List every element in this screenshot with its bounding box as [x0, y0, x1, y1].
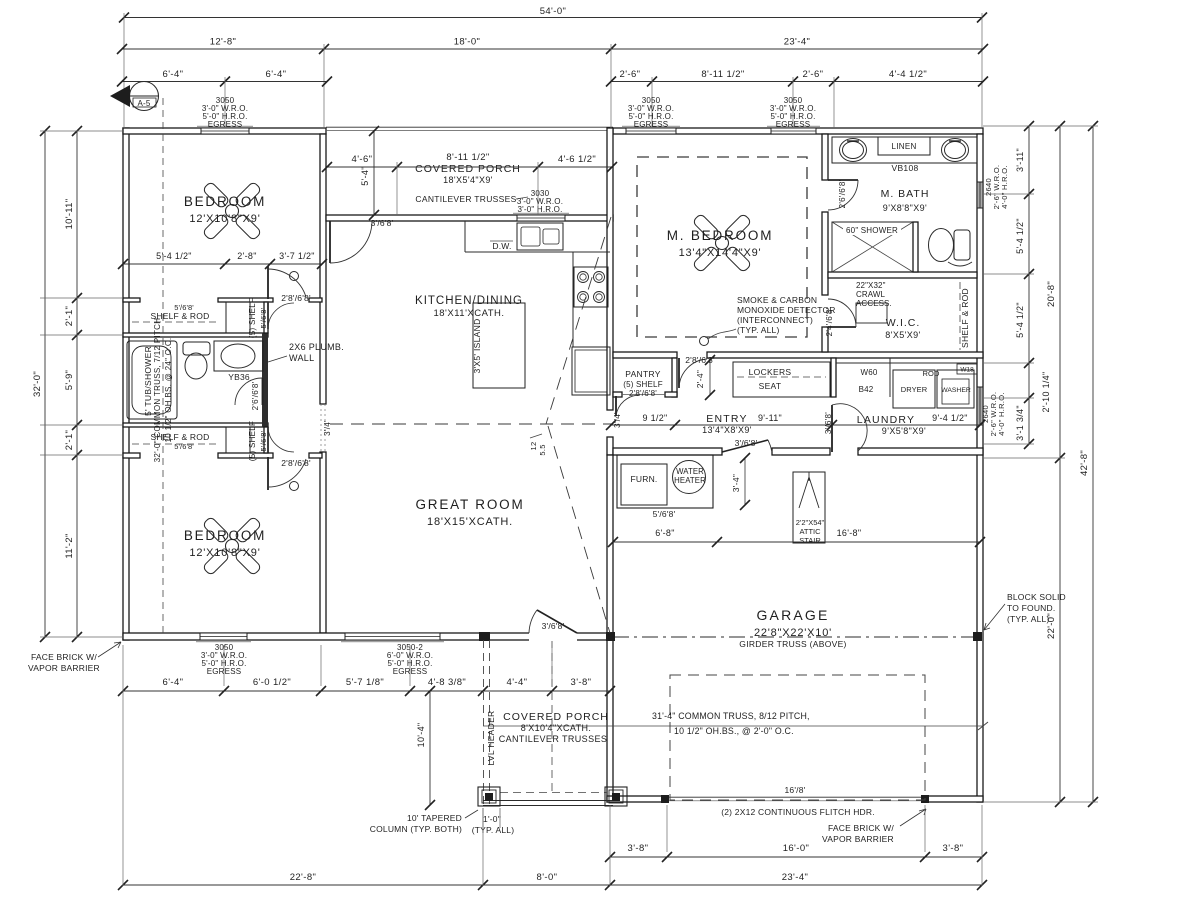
svg-text:16'-0": 16'-0"	[783, 843, 810, 854]
svg-text:CANTILEVER TRUSSES: CANTILEVER TRUSSES	[415, 194, 516, 204]
svg-text:9'-4 1/2": 9'-4 1/2"	[932, 413, 968, 423]
ceiling fan bedroom1	[234, 213, 262, 241]
svg-text:4'-0" H.R.O.: 4'-0" H.R.O.	[997, 392, 1006, 436]
porch LVL header dashed lines	[483, 640, 485, 806]
svg-text:12'X10'8"X9': 12'X10'8"X9'	[189, 547, 260, 559]
dim row3 right 2-6 8-11half 2-6 4-4half	[611, 81, 983, 83]
pantry bottom wall	[613, 392, 622, 397]
svg-text:5'/6'8': 5'/6'8'	[653, 509, 676, 519]
wall lockers/laundry	[831, 358, 836, 397]
hall-bath top wall	[123, 333, 268, 337]
smoke detector bedroom1	[290, 272, 299, 281]
svg-text:HEATER: HEATER	[674, 476, 706, 485]
dim right overall 42-8	[1092, 126, 1094, 802]
svg-text:5'-4 1/2": 5'-4 1/2"	[156, 251, 192, 261]
dim garage bottom 3-8 16-0 3-8	[610, 856, 982, 858]
svg-text:16'/8': 16'/8'	[785, 785, 806, 795]
svg-text:COLUMN (TYP. BOTH): COLUMN (TYP. BOTH)	[370, 824, 462, 834]
svg-text:9'X5'8"X9': 9'X5'8"X9'	[882, 426, 926, 436]
dim right chain1	[1028, 126, 1030, 444]
svg-text:3'-11": 3'-11"	[1015, 148, 1025, 172]
island	[473, 303, 525, 388]
svg-text:VB108: VB108	[891, 163, 918, 173]
svg-text:32'-0" COMMON TRUSS, 7/12 PITC: 32'-0" COMMON TRUSS, 7/12 PITCH	[153, 318, 162, 463]
svg-text:3'-8": 3'-8"	[628, 843, 649, 854]
svg-text:ROD: ROD	[923, 369, 940, 378]
svg-text:4'-4": 4'-4"	[507, 677, 528, 688]
master bath / WIC divider wall	[828, 272, 977, 278]
svg-text:LAUNDRY: LAUNDRY	[857, 414, 915, 426]
svg-text:9'-11": 9'-11"	[758, 413, 782, 423]
svg-text:2'-4": 2'-4"	[695, 370, 705, 388]
svg-text:2'8'/6'8': 2'8'/6'8'	[629, 389, 657, 398]
svg-text:8'-11 1/2": 8'-11 1/2"	[701, 69, 744, 80]
svg-text:4'-6": 4'-6"	[352, 154, 373, 165]
dim 54'-0 top	[124, 17, 982, 19]
svg-text:4'-0" H.R.O.: 4'-0" H.R.O.	[1000, 165, 1009, 209]
cantilever trusses note top	[516, 197, 528, 199]
svg-text:5' TUB/SHOWER: 5' TUB/SHOWER	[143, 346, 153, 416]
exterior wall top of master bedroom	[613, 128, 983, 134]
svg-text:2'8'/6'8': 2'8'/6'8'	[685, 355, 715, 365]
entry-garage door	[722, 440, 768, 452]
svg-text:BLOCK SOLID: BLOCK SOLID	[1007, 592, 1066, 602]
svg-text:18'-0": 18'-0"	[454, 37, 481, 48]
svg-text:B42: B42	[859, 385, 874, 394]
kitchen porch door 3/6'8	[329, 221, 331, 263]
garage bottom wall	[607, 796, 667, 802]
svg-text:SHELF & ROD: SHELF & ROD	[960, 288, 970, 348]
laundry cabinet line	[836, 362, 977, 364]
svg-text:KITCHEN/DINING: KITCHEN/DINING	[415, 295, 523, 307]
washer	[937, 370, 974, 408]
svg-text:10' TAPERED: 10' TAPERED	[407, 813, 462, 823]
svg-text:D.W.: D.W.	[492, 241, 511, 251]
linen closet	[878, 137, 930, 155]
svg-text:1'-0": 1'-0"	[483, 814, 501, 824]
svg-text:5'-7 1/8": 5'-7 1/8"	[346, 677, 384, 688]
porch bottom edge	[483, 800, 613, 802]
A-5 section marker	[130, 82, 159, 111]
svg-text:LVL HEADER: LVL HEADER	[486, 711, 496, 766]
svg-text:23'-4": 23'-4"	[784, 37, 811, 48]
dim bottom chain small	[123, 690, 610, 692]
linen closet door swing upper	[267, 303, 269, 329]
hall opening dotted jambs	[320, 404, 322, 452]
linen closet door swing lower	[267, 427, 269, 453]
hall-bath bottom wall	[123, 423, 268, 427]
svg-text:5'-9": 5'-9"	[64, 370, 75, 390]
svg-text:23'-4": 23'-4"	[782, 872, 809, 883]
svg-text:VAPOR BARRIER: VAPOR BARRIER	[28, 663, 100, 673]
svg-text:W.I.C.: W.I.C.	[886, 317, 921, 329]
hall-bath toilet	[183, 342, 210, 355]
svg-text:3'-8": 3'-8"	[571, 677, 592, 688]
svg-text:2'2"X54": 2'2"X54"	[796, 518, 825, 527]
garage top wall (entry+laundry floor)	[613, 448, 722, 455]
svg-text:16'-8": 16'-8"	[837, 528, 862, 538]
svg-text:2'-8": 2'-8"	[237, 251, 256, 261]
m.bedroom tray ceiling dashed	[637, 157, 807, 337]
entry dim line	[611, 424, 983, 426]
svg-text:13'4"X8'X9': 13'4"X8'X9'	[702, 425, 752, 435]
WIC door swing	[828, 326, 856, 328]
svg-text:10 1/2" OH.BS. @ 24" O.C.: 10 1/2" OH.BS. @ 24" O.C.	[164, 338, 173, 443]
2x6 plumbing wall (dark)	[262, 333, 268, 427]
svg-text:20'-8": 20'-8"	[1046, 281, 1057, 307]
exterior wall left (bedroom wing)	[123, 128, 129, 640]
windows bottom wall	[200, 633, 247, 640]
pantry 2-4 dim	[709, 360, 711, 395]
svg-text:TO FOUND.: TO FOUND.	[1007, 603, 1055, 613]
ceiling fan bedroom2	[234, 548, 262, 576]
covered porch top edge	[326, 126, 613, 128]
windows top wall	[201, 128, 249, 134]
pantry door swing	[615, 396, 617, 416]
svg-text:CRAWL: CRAWL	[856, 290, 886, 299]
smoke detector bedroom2	[290, 482, 299, 491]
kitchen counters	[465, 251, 610, 253]
svg-text:18'X5'4"X9': 18'X5'4"X9'	[443, 175, 493, 185]
porch column right	[605, 787, 627, 806]
svg-text:8'-11 1/2": 8'-11 1/2"	[446, 152, 489, 163]
svg-text:(INTERCONNECT): (INTERCONNECT)	[737, 315, 813, 325]
svg-text:11'-2": 11'-2"	[64, 533, 75, 558]
svg-text:2'-1": 2'-1"	[64, 430, 75, 450]
svg-text:EGRESS: EGRESS	[776, 120, 811, 129]
svg-text:6'-0 1/2": 6'-0 1/2"	[253, 677, 291, 688]
svg-text:6'-8": 6'-8"	[655, 528, 674, 538]
porch dim row 4-6 8-11half 4-6half	[327, 166, 612, 168]
garage door jamb posts	[661, 795, 669, 803]
master bedroom bottom wall	[613, 352, 677, 358]
svg-text:2'-6": 2'-6"	[620, 69, 641, 80]
exterior wall right	[977, 134, 983, 802]
svg-text:LINEN: LINEN	[891, 142, 916, 151]
linen closet (5 shelf) upper	[226, 302, 250, 333]
pantry right wall	[672, 358, 677, 397]
svg-text:3'/6'8': 3'/6'8'	[735, 438, 758, 448]
exterior wall top of bedroom wing	[123, 128, 326, 134]
svg-text:6'-4": 6'-4"	[266, 69, 287, 80]
truss line bedroom wing	[162, 98, 164, 633]
kitchen top exterior wall	[326, 215, 613, 221]
svg-text:5'/6'8': 5'/6'8'	[259, 307, 268, 328]
hall west wall upper stub	[264, 302, 268, 333]
hall-bath vanity YB36	[214, 341, 263, 371]
svg-text:3'/6'8': 3'/6'8'	[824, 412, 833, 434]
svg-text:6'-4": 6'-4"	[163, 69, 184, 80]
svg-text:5'-4 1/2": 5'-4 1/2"	[1015, 302, 1025, 338]
svg-text:18'X15'XCATH.: 18'X15'XCATH.	[427, 516, 513, 528]
porch vertical dim 5-4	[373, 131, 375, 215]
svg-text:3'X5' ISLAND: 3'X5' ISLAND	[472, 318, 482, 373]
svg-text:(2) 2X12 CONTINUOUS FLITCH HDR: (2) 2X12 CONTINUOUS FLITCH HDR.	[721, 807, 875, 817]
svg-text:3'-7 1/2": 3'-7 1/2"	[279, 251, 315, 261]
svg-text:FURN.: FURN.	[631, 474, 658, 484]
svg-text:SMOKE & CARBON: SMOKE & CARBON	[737, 295, 817, 305]
svg-text:5'-4 1/2": 5'-4 1/2"	[1015, 218, 1025, 254]
svg-text:STAIR: STAIR	[799, 536, 821, 545]
svg-text:2'-1": 2'-1"	[64, 306, 75, 326]
svg-text:(5) SHELF: (5) SHELF	[248, 421, 257, 462]
stove	[574, 267, 608, 307]
m.bath sinks	[840, 139, 867, 162]
svg-text:8'X10'4"XCATH.: 8'X10'4"XCATH.	[521, 723, 592, 733]
svg-text:(TYP. ALL): (TYP. ALL)	[737, 325, 779, 335]
svg-text:5'/6'8': 5'/6'8'	[174, 442, 194, 451]
svg-text:GIRDER TRUSS (ABOVE): GIRDER TRUSS (ABOVE)	[739, 639, 846, 649]
svg-text:M. BEDROOM: M. BEDROOM	[667, 228, 774, 243]
svg-text:3'/4': 3'/4'	[613, 412, 622, 428]
svg-text:FACE BRICK W/: FACE BRICK W/	[31, 652, 97, 662]
svg-text:8'X5'X9': 8'X5'X9'	[885, 330, 920, 340]
svg-text:8'-0": 8'-0"	[537, 872, 558, 883]
svg-text:32'-0": 32'-0"	[32, 371, 43, 397]
svg-text:22'-0": 22'-0"	[1046, 613, 1057, 639]
svg-text:22"X32": 22"X32"	[856, 281, 886, 290]
svg-text:ENTRY: ENTRY	[706, 413, 747, 425]
svg-text:2'6'/6'8': 2'6'/6'8'	[251, 381, 260, 410]
svg-text:2'-6": 2'-6"	[803, 69, 824, 80]
dim bottom overall	[123, 884, 982, 886]
porch 10-4 dim	[429, 691, 431, 805]
svg-text:A-5: A-5	[137, 99, 150, 108]
patio door great room	[529, 632, 577, 641]
svg-text:WATER: WATER	[676, 467, 704, 476]
bedroom2 top wall with door opening	[123, 453, 140, 458]
svg-text:5'/6'8': 5'/6'8'	[259, 430, 268, 451]
svg-text:3'-4": 3'-4"	[731, 474, 741, 492]
bedroom2 door swing	[267, 457, 269, 490]
truss note line	[483, 725, 983, 727]
m.bath toilet	[954, 230, 970, 260]
svg-text:12'-8": 12'-8"	[210, 37, 237, 48]
ceiling fan master bedroom	[724, 245, 752, 273]
svg-text:2'8'/6'8': 2'8'/6'8'	[281, 293, 311, 303]
porch column left	[478, 787, 500, 806]
svg-text:3'-1 3/4": 3'-1 3/4"	[1015, 405, 1025, 441]
W18 cabinet box	[957, 364, 977, 374]
svg-text:10'-11": 10'-11"	[64, 199, 75, 230]
svg-text:12: 12	[529, 442, 538, 451]
svg-text:6'-4": 6'-4"	[163, 677, 184, 688]
garage door head lines	[667, 796, 925, 798]
svg-text:3'-8": 3'-8"	[943, 843, 964, 854]
svg-text:9 1/2": 9 1/2"	[642, 413, 667, 423]
interior dim bedroom1 bottom	[123, 263, 322, 265]
svg-text:5.5: 5.5	[538, 444, 547, 455]
svg-text:3'/4': 3'/4'	[323, 420, 332, 436]
svg-text:2'8'/6'8': 2'8'/6'8'	[281, 458, 311, 468]
svg-text:(5) SHELF: (5) SHELF	[623, 380, 663, 389]
svg-text:(TYP. ALL): (TYP. ALL)	[472, 825, 514, 835]
master bath door swing	[828, 179, 858, 181]
kitchen window 3030	[517, 215, 565, 221]
svg-text:EGRESS: EGRESS	[634, 120, 669, 129]
svg-text:54'-0": 54'-0"	[540, 6, 567, 17]
svg-text:GREAT ROOM: GREAT ROOM	[415, 497, 524, 512]
m.bedroom hall door swing	[678, 358, 680, 388]
furn 3-4 dim	[744, 458, 746, 505]
windows right wall	[977, 182, 983, 208]
lockers+seat casework	[733, 362, 830, 397]
dim row2 12'-8 18'-0 23'-4	[122, 48, 983, 50]
svg-text:M. BATH: M. BATH	[881, 188, 930, 200]
dim row3 left 6-4 6-4	[122, 81, 327, 83]
svg-text:2'4'/6'8': 2'4'/6'8'	[825, 307, 834, 336]
svg-text:W60: W60	[860, 368, 877, 377]
exterior wall bottom (bedroom wing + great room)	[123, 633, 613, 640]
svg-text:COVERED PORCH: COVERED PORCH	[415, 163, 521, 175]
garage wall posts	[606, 632, 615, 641]
laundry-garage door	[831, 405, 833, 452]
dim left room chain	[76, 131, 78, 637]
shower	[832, 222, 913, 272]
svg-text:10 1/2" OH.BS., @ 2'-0" O.C.: 10 1/2" OH.BS., @ 2'-0" O.C.	[674, 726, 794, 736]
m.bath vanity counter	[832, 137, 977, 163]
linen closet (5 shelf) lower	[226, 427, 250, 453]
garage roof truss dashed rectangle	[670, 675, 925, 800]
svg-text:31'-4" COMMON TRUSS, 8/12 PITC: 31'-4" COMMON TRUSS, 8/12 PITCH,	[652, 711, 810, 721]
porch roof dashed line	[500, 792, 607, 794]
wall bedroom-wing / great-room (upper)	[320, 134, 326, 404]
hall-bath tub	[127, 341, 177, 419]
dim right chain2	[1059, 126, 1061, 802]
garage interior dim 6-8 16-8	[613, 541, 980, 543]
svg-text:18'X11'XCATH.: 18'X11'XCATH.	[433, 308, 504, 319]
svg-text:W18: W18	[960, 367, 974, 374]
svg-text:42'-8": 42'-8"	[1079, 450, 1090, 476]
great room cathedral dashed line	[330, 423, 612, 425]
svg-text:ACCESS.: ACCESS.	[856, 299, 892, 308]
water heater circle	[673, 461, 706, 494]
svg-text:10'-4": 10'-4"	[416, 723, 426, 748]
svg-text:SEAT: SEAT	[759, 381, 782, 391]
svg-text:COVERED PORCH: COVERED PORCH	[503, 711, 609, 723]
furnace	[621, 464, 667, 505]
dim left 32-0	[44, 131, 46, 637]
svg-text:9'X8'8"X9': 9'X8'8"X9'	[883, 203, 927, 213]
svg-text:BEDROOM: BEDROOM	[184, 194, 266, 209]
garage left wall	[607, 455, 613, 802]
svg-text:60" SHOWER: 60" SHOWER	[846, 226, 898, 235]
svg-text:3'-0" H.R.O.: 3'-0" H.R.O.	[518, 205, 563, 214]
svg-text:LOCKERS: LOCKERS	[749, 367, 792, 377]
svg-text:GARAGE: GARAGE	[756, 607, 829, 623]
svg-text:WALL: WALL	[289, 353, 314, 363]
svg-text:FACE BRICK W/: FACE BRICK W/	[828, 823, 894, 833]
svg-text:4'-4 1/2": 4'-4 1/2"	[889, 69, 927, 80]
svg-text:CANTILEVER TRUSSES: CANTILEVER TRUSSES	[499, 734, 608, 744]
svg-text:5'-4": 5'-4"	[360, 166, 370, 185]
bedroom1 door swing	[267, 266, 269, 299]
master bath left wall	[822, 134, 828, 180]
svg-text:WASHER: WASHER	[941, 387, 971, 394]
svg-text:VAPOR BARRIER: VAPOR BARRIER	[822, 834, 894, 844]
svg-text:12'X10'8"X9': 12'X10'8"X9'	[189, 213, 260, 225]
dryer	[893, 370, 935, 408]
svg-text:4'-6 1/2": 4'-6 1/2"	[558, 154, 596, 165]
svg-text:MONOXIDE DETECTOR: MONOXIDE DETECTOR	[737, 305, 836, 315]
hall west wall lower stub	[264, 427, 268, 453]
svg-text:2'6'/6'8': 2'6'/6'8'	[838, 179, 847, 208]
svg-text:PANTRY: PANTRY	[625, 369, 661, 379]
svg-text:3'/6'8': 3'/6'8'	[371, 218, 394, 228]
svg-text:YB36: YB36	[228, 372, 250, 382]
smoke detector master bedroom	[700, 337, 709, 346]
svg-text:BEDROOM: BEDROOM	[184, 528, 266, 543]
attic stair box	[793, 472, 825, 543]
svg-text:DRYER: DRYER	[901, 385, 928, 394]
hall bath door swing	[262, 378, 264, 405]
svg-text:22'-8": 22'-8"	[290, 872, 317, 883]
svg-text:2'-10 1/4": 2'-10 1/4"	[1041, 372, 1051, 413]
wall kitchen / master bedroom (x=610)	[607, 128, 613, 410]
svg-text:2X6 PLUMB.: 2X6 PLUMB.	[289, 342, 344, 352]
svg-text:13'4"X14'4"X9': 13'4"X14'4"X9'	[679, 247, 762, 259]
bedroom1 bottom wall with door opening	[123, 298, 140, 302]
svg-text:22'8"X22'X10': 22'8"X22'X10'	[754, 627, 832, 639]
girder truss dash-dot line	[613, 636, 977, 638]
fridge/base cabinet	[572, 347, 610, 395]
svg-text:EGRESS: EGRESS	[208, 120, 243, 129]
svg-text:(TYP. ALL): (TYP. ALL)	[1007, 614, 1049, 624]
svg-text:3'/6'8': 3'/6'8'	[542, 621, 565, 631]
kitchen valley dashed	[546, 217, 611, 424]
great room valley dashed	[548, 426, 610, 633]
furnace room walls	[617, 455, 713, 508]
kitchen sink	[517, 223, 563, 250]
wall bedroom-wing / great-room (lower)	[320, 452, 326, 633]
svg-text:(5) SHELF: (5) SHELF	[248, 298, 257, 339]
svg-text:ATTIC: ATTIC	[799, 527, 821, 536]
